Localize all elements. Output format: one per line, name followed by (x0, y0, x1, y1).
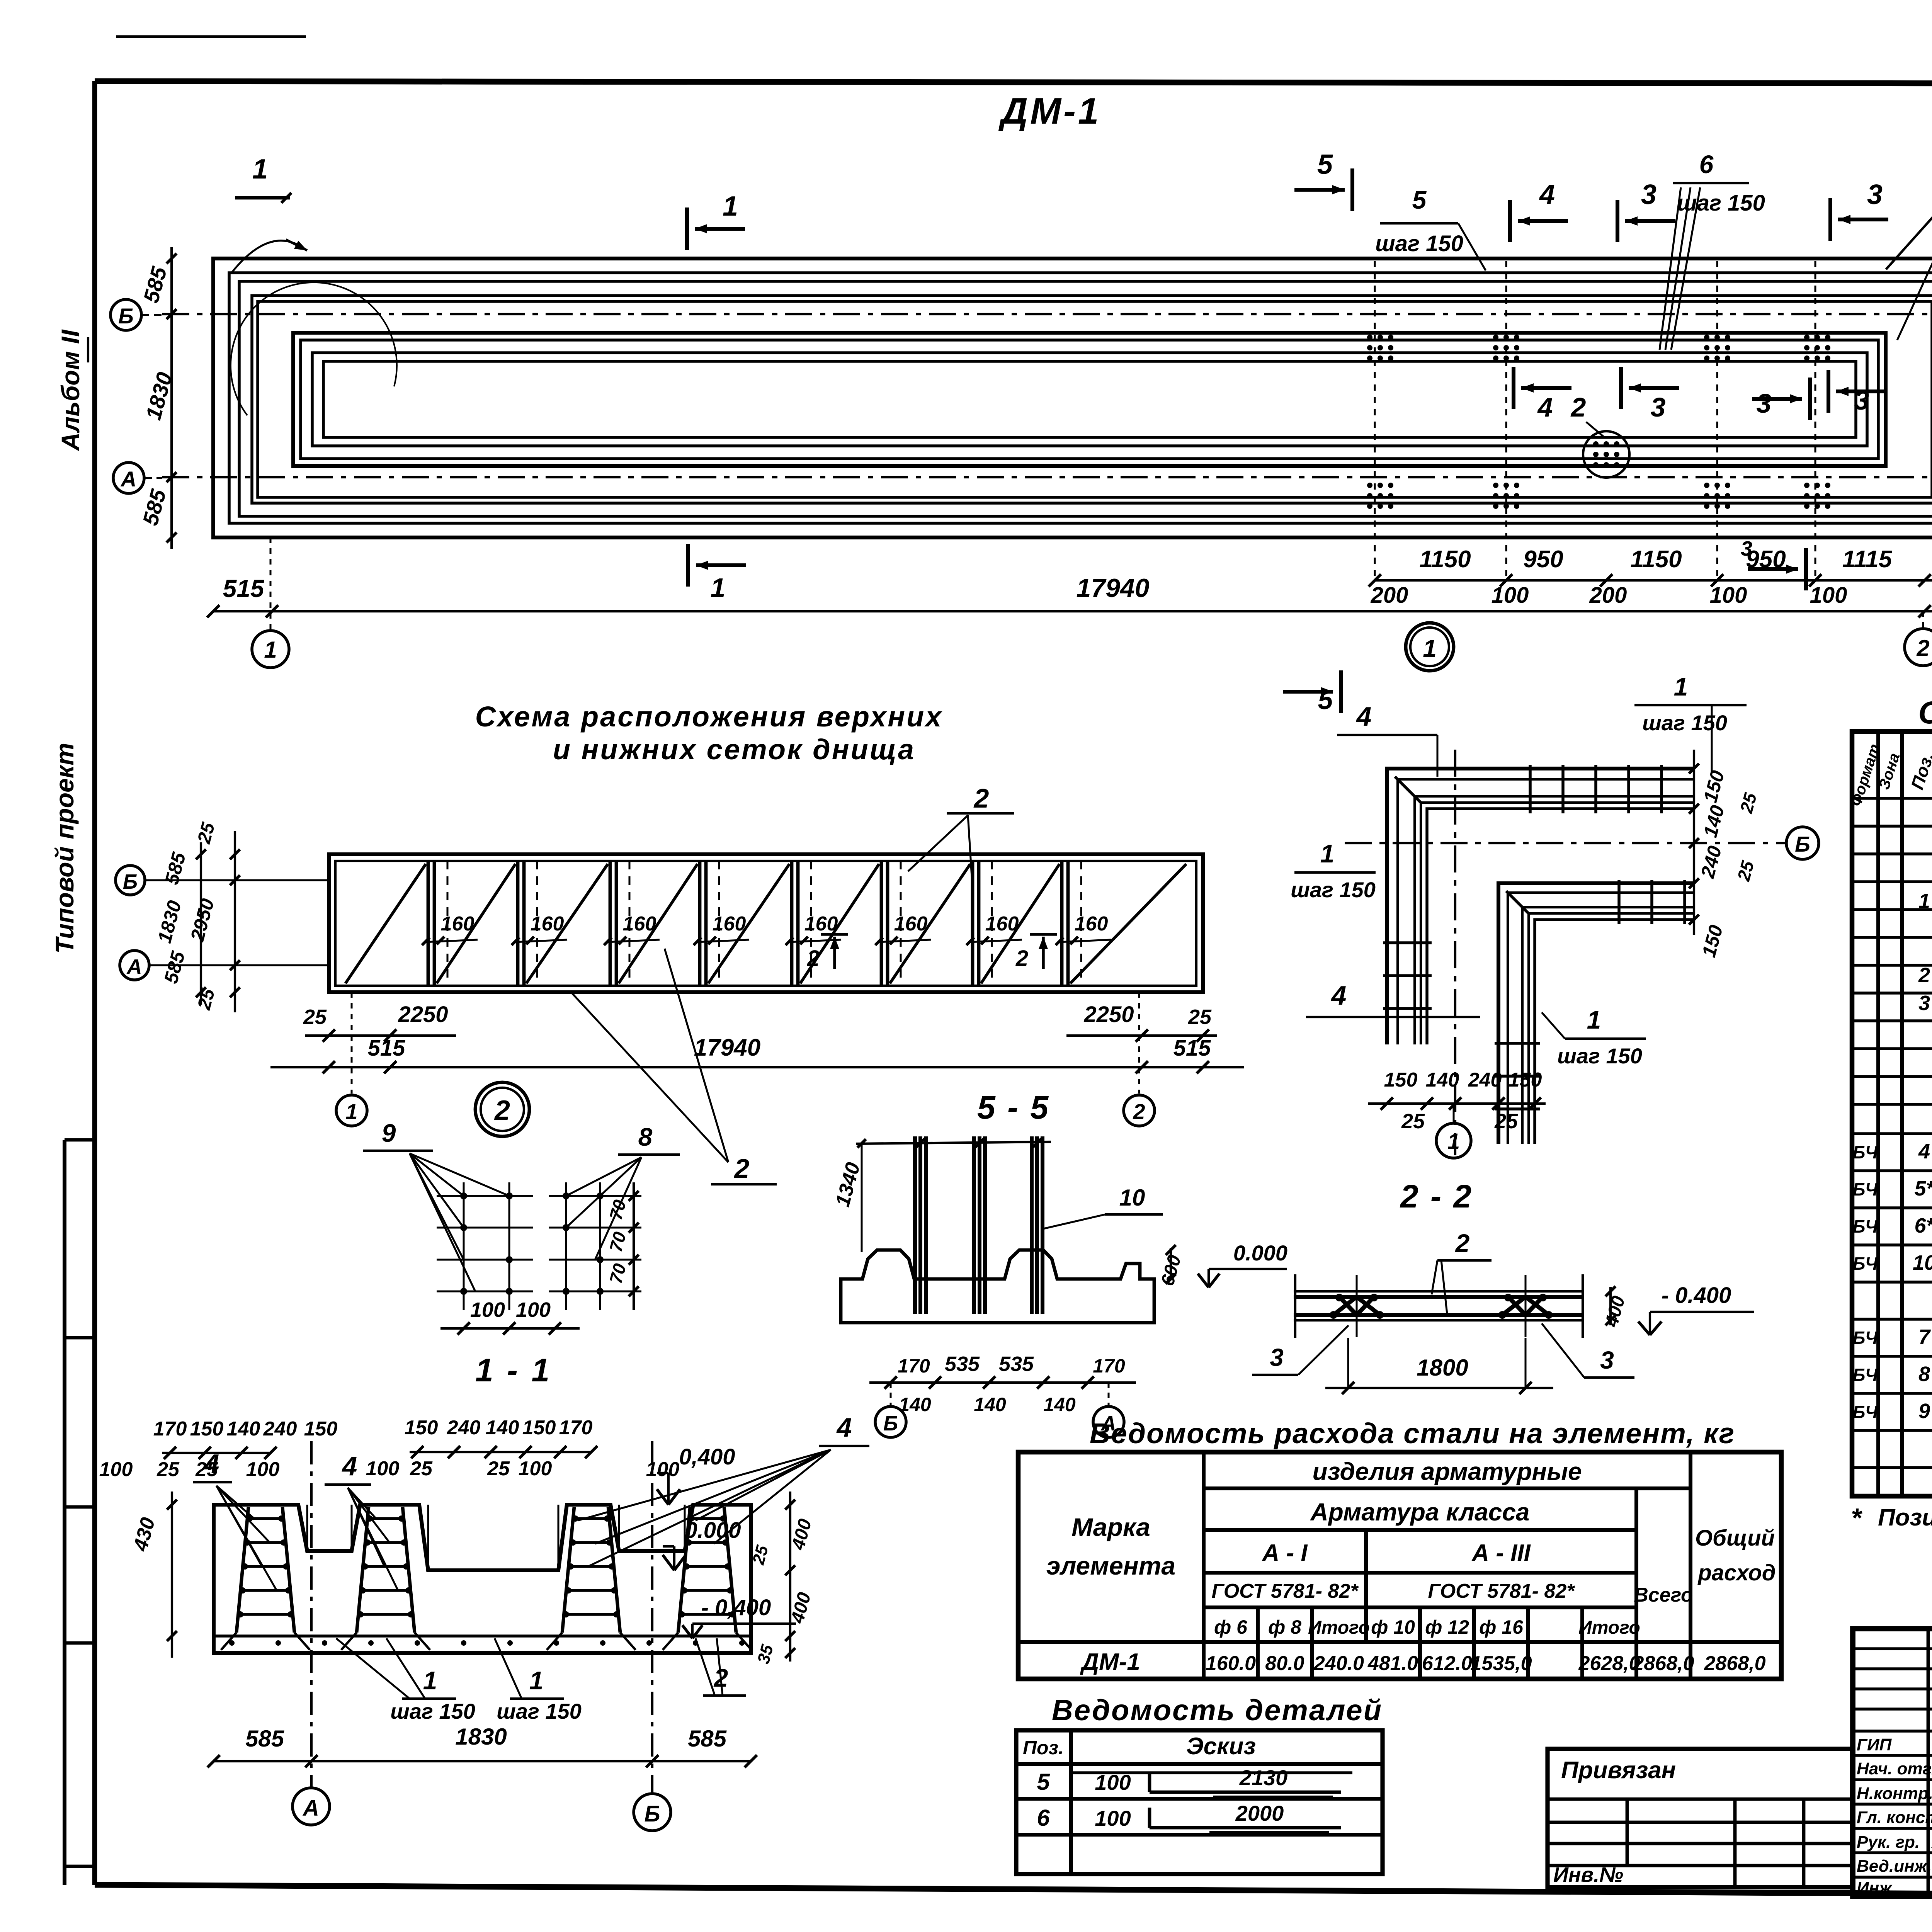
svg-text:4: 4 (342, 1451, 357, 1481)
svg-text:2: 2 (807, 946, 820, 971)
svg-text:1535,0: 1535,0 (1470, 1652, 1532, 1675)
svg-text:5 - 5: 5 - 5 (977, 1089, 1050, 1126)
svg-text:1115: 1115 (1842, 546, 1893, 573)
svg-text:170: 170 (153, 1418, 187, 1440)
svg-text:Гл. конст.: Гл. конст. (1857, 1808, 1932, 1827)
svg-text:160: 160 (804, 913, 838, 935)
svg-text:200: 200 (1371, 583, 1408, 608)
svg-text:1830: 1830 (455, 1724, 507, 1750)
svg-text:17940: 17940 (694, 1034, 760, 1061)
svg-text:3: 3 (1757, 388, 1772, 418)
svg-text:4: 4 (1539, 179, 1555, 210)
svg-text:и нижних сеток днища: и нижних сеток днища (553, 733, 915, 765)
svg-text:25: 25 (487, 1458, 510, 1480)
svg-text:А - III: А - III (1471, 1540, 1531, 1566)
svg-text:- 0.400: - 0.400 (1662, 1283, 1731, 1308)
svg-text:160: 160 (894, 913, 928, 935)
svg-text:160: 160 (623, 913, 656, 935)
svg-text:4: 4 (1918, 1140, 1930, 1163)
svg-text:2 - 2: 2 - 2 (1400, 1178, 1473, 1214)
svg-text:изделия арматурные: изделия арматурные (1313, 1458, 1582, 1485)
svg-text:Эскиз: Эскиз (1186, 1733, 1256, 1760)
svg-text:*: * (1851, 1503, 1862, 1533)
svg-text:140: 140 (974, 1394, 1006, 1415)
svg-text:170: 170 (898, 1355, 930, 1377)
svg-text:шаг 150: шаг 150 (497, 1699, 582, 1723)
svg-text:535: 535 (999, 1352, 1034, 1376)
svg-text:2628,0: 2628,0 (1578, 1652, 1640, 1675)
svg-text:100: 100 (246, 1458, 280, 1481)
svg-text:1: 1 (252, 154, 268, 185)
svg-text:Альбом II: Альбом II (56, 329, 85, 452)
svg-text:Б: Б (1795, 832, 1810, 856)
svg-text:Всего: Всего (1634, 1584, 1693, 1606)
svg-text:ДМ-1: ДМ-1 (998, 90, 1101, 132)
svg-text:Ведомость расхода стали на эле: Ведомость расхода стали на элемент, кг (1090, 1417, 1735, 1449)
svg-text:1: 1 (423, 1666, 437, 1695)
svg-text:3: 3 (1918, 992, 1930, 1015)
svg-text:шаг 150: шаг 150 (1291, 878, 1376, 902)
svg-text:481.0: 481.0 (1367, 1652, 1418, 1675)
svg-text:150: 150 (522, 1417, 556, 1439)
svg-text:ф 8: ф 8 (1268, 1616, 1301, 1638)
svg-text:2: 2 (973, 783, 989, 813)
svg-text:9: 9 (1918, 1400, 1930, 1423)
svg-text:150: 150 (1509, 1069, 1542, 1091)
svg-text:25: 25 (156, 1458, 180, 1481)
svg-text:1: 1 (1918, 889, 1930, 913)
svg-text:25: 25 (1401, 1110, 1425, 1133)
svg-text:2: 2 (1570, 392, 1586, 422)
svg-text:Итого: Итого (1578, 1617, 1640, 1638)
svg-text:5: 5 (1317, 149, 1333, 180)
svg-text:140: 140 (486, 1417, 519, 1439)
svg-text:2: 2 (734, 1153, 750, 1184)
svg-text:8: 8 (1918, 1362, 1930, 1386)
svg-text:БЧ: БЧ (1853, 1179, 1878, 1199)
svg-text:А: А (126, 955, 142, 978)
svg-text:2: 2 (1918, 964, 1930, 987)
svg-text:200: 200 (1589, 583, 1627, 608)
svg-text:100: 100 (99, 1458, 133, 1481)
svg-text:шаг 150: шаг 150 (390, 1699, 475, 1723)
svg-text:БЧ: БЧ (1853, 1365, 1878, 1385)
svg-text:Поз.: Поз. (1023, 1737, 1064, 1759)
svg-text:ф 16: ф 16 (1479, 1616, 1524, 1638)
svg-text:элемента: элемента (1046, 1551, 1175, 1580)
svg-text:3: 3 (1854, 385, 1869, 415)
svg-text:шаг 150: шаг 150 (1642, 711, 1727, 735)
svg-text:0.000: 0.000 (685, 1518, 741, 1543)
svg-text:100: 100 (1095, 1806, 1131, 1830)
svg-text:25: 25 (303, 1005, 327, 1029)
svg-text:Арматура класса: Арматура класса (1310, 1498, 1530, 1526)
svg-text:25: 25 (1494, 1110, 1518, 1133)
svg-text:1150: 1150 (1630, 546, 1682, 573)
svg-text:3: 3 (1741, 537, 1752, 560)
svg-text:100: 100 (470, 1298, 505, 1321)
svg-text:2130: 2130 (1239, 1765, 1288, 1790)
svg-text:4: 4 (1356, 701, 1372, 731)
svg-text:240.0: 240.0 (1313, 1652, 1364, 1675)
svg-text:100: 100 (646, 1458, 680, 1481)
svg-text:1 - 1: 1 - 1 (475, 1352, 552, 1388)
svg-text:А: А (302, 1796, 319, 1821)
svg-text:1800: 1800 (1417, 1355, 1468, 1381)
svg-text:3: 3 (1270, 1344, 1284, 1371)
svg-text:3: 3 (1600, 1346, 1614, 1374)
svg-text:Б: Б (883, 1412, 898, 1435)
svg-text:Привязан: Привязан (1561, 1757, 1676, 1784)
svg-text:240: 240 (1468, 1069, 1502, 1091)
svg-text:расход: расход (1697, 1560, 1776, 1585)
svg-text:ф 12: ф 12 (1425, 1616, 1469, 1638)
svg-text:Б: Б (118, 304, 134, 328)
svg-text:ГОСТ 5781- 82*: ГОСТ 5781- 82* (1428, 1580, 1576, 1602)
svg-text:2000: 2000 (1235, 1801, 1284, 1825)
svg-text:150: 150 (1384, 1069, 1418, 1091)
svg-text:1: 1 (1447, 1129, 1460, 1154)
svg-text:0.000: 0.000 (1233, 1241, 1287, 1265)
svg-text:140: 140 (227, 1418, 260, 1440)
svg-text:160: 160 (985, 913, 1019, 935)
svg-text:БЧ: БЧ (1853, 1216, 1878, 1236)
svg-text:2: 2 (1916, 635, 1929, 661)
svg-text:ГОСТ 5781- 82*: ГОСТ 5781- 82* (1212, 1580, 1359, 1602)
svg-text:ДМ-1: ДМ-1 (1080, 1649, 1140, 1675)
svg-text:Ведомость деталей: Ведомость деталей (1052, 1694, 1383, 1727)
svg-text:Марка: Марка (1071, 1513, 1150, 1541)
svg-text:1: 1 (345, 1099, 357, 1124)
svg-text:БЧ: БЧ (1853, 1253, 1878, 1274)
svg-text:5: 5 (1037, 1769, 1050, 1795)
svg-text:160: 160 (1075, 913, 1108, 935)
svg-text:Нач. отг.: Нач. отг. (1857, 1759, 1932, 1778)
svg-text:ф 10: ф 10 (1371, 1616, 1415, 1638)
svg-text:25: 25 (1188, 1005, 1212, 1029)
svg-text:1: 1 (723, 191, 738, 222)
svg-text:3: 3 (1651, 392, 1666, 422)
svg-text:100: 100 (1095, 1770, 1131, 1794)
svg-text:БЧ: БЧ (1853, 1328, 1878, 1348)
svg-text:515: 515 (223, 575, 265, 602)
svg-text:Инв.№: Инв.№ (1553, 1863, 1623, 1886)
svg-text:1: 1 (1423, 634, 1437, 662)
svg-text:585: 585 (245, 1726, 285, 1752)
svg-text:4: 4 (1331, 980, 1347, 1010)
svg-text:515: 515 (1173, 1036, 1211, 1061)
svg-text:ф 6: ф 6 (1214, 1616, 1248, 1638)
svg-text:Н.контр.: Н.контр. (1857, 1784, 1932, 1803)
svg-text:240: 240 (447, 1417, 481, 1439)
svg-text:4: 4 (836, 1412, 852, 1442)
svg-text:950: 950 (1523, 546, 1563, 573)
svg-text:Б: Б (123, 870, 138, 893)
svg-text:БЧ: БЧ (1853, 1402, 1878, 1422)
svg-text:2868,0: 2868,0 (1632, 1652, 1694, 1675)
svg-text:Итого: Итого (1308, 1617, 1370, 1638)
svg-text:1: 1 (529, 1666, 544, 1695)
svg-text:Б: Б (644, 1801, 660, 1827)
svg-text:240: 240 (263, 1418, 297, 1440)
svg-text:БЧ: БЧ (1853, 1142, 1878, 1162)
svg-text:585: 585 (688, 1726, 727, 1752)
svg-text:160: 160 (441, 913, 474, 935)
svg-text:2250: 2250 (1083, 1002, 1134, 1027)
svg-text:1: 1 (711, 573, 726, 603)
svg-text:шаг 150: шаг 150 (1375, 231, 1463, 256)
svg-text:шаг 150: шаг 150 (1557, 1044, 1642, 1068)
svg-text:10: 10 (1119, 1185, 1145, 1211)
svg-text:100: 100 (1710, 583, 1747, 608)
svg-text:- 0,400: - 0,400 (701, 1595, 771, 1620)
svg-text:5*: 5* (1914, 1177, 1932, 1200)
svg-text:25: 25 (410, 1458, 433, 1480)
svg-text:9: 9 (382, 1119, 396, 1147)
svg-text:ГИП: ГИП (1857, 1735, 1892, 1754)
svg-text:Рук. гр.: Рук. гр. (1857, 1833, 1920, 1852)
svg-text:2250: 2250 (398, 1002, 448, 1027)
svg-text:2: 2 (494, 1095, 510, 1126)
svg-text:80.0: 80.0 (1265, 1652, 1304, 1675)
svg-text:5: 5 (1412, 185, 1427, 214)
svg-text:160: 160 (713, 913, 746, 935)
svg-text:535: 535 (945, 1352, 980, 1376)
svg-text:6*: 6* (1914, 1214, 1932, 1237)
svg-text:150: 150 (405, 1417, 438, 1439)
svg-text:Вед.инж.: Вед.инж. (1857, 1857, 1932, 1876)
svg-text:100: 100 (1492, 583, 1529, 608)
svg-text:Позиции 5,6 смотреть ведомост: Позиции 5,6 смотреть ведомость деталей. (1878, 1504, 1932, 1531)
svg-text:Спецификация на днище монолитн: Спецификация на днище монолитное ДМ-1 (1918, 695, 1932, 730)
svg-text:1: 1 (1320, 839, 1335, 868)
svg-text:2: 2 (1455, 1229, 1470, 1257)
svg-text:2: 2 (1133, 1099, 1145, 1124)
svg-text:4: 4 (1537, 392, 1553, 422)
svg-text:1: 1 (264, 637, 277, 663)
svg-text:А: А (120, 467, 136, 491)
svg-text:100: 100 (366, 1458, 400, 1480)
svg-text:1: 1 (1587, 1005, 1601, 1034)
svg-text:140: 140 (1043, 1394, 1076, 1415)
svg-text:100: 100 (516, 1298, 551, 1321)
svg-text:10: 10 (1913, 1251, 1932, 1274)
svg-text:Общий: Общий (1695, 1526, 1775, 1551)
svg-text:1: 1 (1674, 672, 1688, 701)
svg-text:100: 100 (519, 1458, 552, 1480)
svg-text:7: 7 (1918, 1325, 1931, 1349)
svg-text:17940: 17940 (1076, 573, 1149, 603)
svg-text:100: 100 (1810, 583, 1847, 608)
svg-text:170: 170 (1093, 1355, 1125, 1377)
svg-text:150: 150 (190, 1418, 224, 1440)
svg-text:160.0: 160.0 (1206, 1652, 1256, 1675)
svg-text:Типовой проект: Типовой проект (50, 743, 79, 954)
svg-text:3: 3 (1641, 179, 1656, 210)
svg-text:1150: 1150 (1419, 546, 1471, 573)
svg-text:8: 8 (638, 1122, 653, 1151)
svg-text:Схема расположения верхних: Схема расположения верхних (475, 701, 943, 733)
svg-text:515: 515 (368, 1036, 406, 1061)
svg-text:6: 6 (1037, 1805, 1050, 1831)
svg-text:170: 170 (559, 1417, 593, 1439)
svg-text:5: 5 (1318, 685, 1333, 715)
svg-text:2868,0: 2868,0 (1704, 1652, 1765, 1675)
svg-text:6: 6 (1699, 150, 1714, 179)
svg-text:150: 150 (304, 1418, 338, 1440)
svg-text:4: 4 (204, 1449, 219, 1479)
svg-text:3: 3 (1867, 179, 1883, 210)
svg-text:А - I: А - I (1261, 1540, 1308, 1566)
svg-text:0,400: 0,400 (679, 1444, 735, 1469)
svg-text:160: 160 (531, 913, 564, 935)
svg-text:2: 2 (1015, 946, 1028, 971)
svg-text:Инж.: Инж. (1857, 1879, 1896, 1898)
svg-text:612.0: 612.0 (1422, 1652, 1472, 1675)
svg-text:140: 140 (1426, 1069, 1459, 1091)
